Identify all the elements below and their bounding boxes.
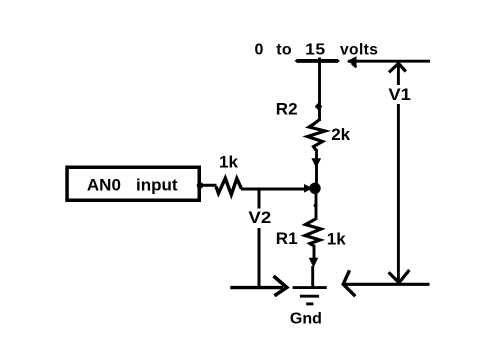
svg-text:input: input — [136, 175, 178, 194]
svg-text:Gnd: Gnd — [290, 310, 322, 327]
svg-text:1k: 1k — [327, 229, 346, 248]
svg-text:volts: volts — [340, 41, 378, 58]
svg-text:1k: 1k — [219, 153, 238, 172]
svg-text:to: to — [276, 41, 292, 58]
svg-text:R1: R1 — [276, 229, 298, 248]
svg-text:AN0: AN0 — [87, 175, 121, 194]
svg-text:0: 0 — [255, 41, 264, 58]
svg-text:15: 15 — [305, 41, 325, 58]
svg-text:V1: V1 — [388, 85, 411, 104]
svg-text:2k: 2k — [331, 125, 350, 144]
svg-text:R2: R2 — [276, 99, 298, 118]
svg-text:V2: V2 — [248, 208, 271, 227]
